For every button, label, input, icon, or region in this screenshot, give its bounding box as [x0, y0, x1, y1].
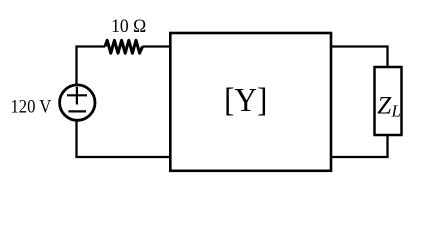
wire box to load top	[331, 45, 389, 67]
plus sign	[67, 87, 87, 105]
resistor R1 10 ohm zigzag	[105, 40, 143, 53]
svg-text:[Y]: [Y]	[224, 82, 267, 120]
svg-text:ZL: ZL	[377, 93, 401, 121]
load impedance ZL box	[375, 67, 402, 135]
svg-text:120 V: 120 V	[10, 95, 51, 116]
minus sign	[68, 110, 86, 112]
two-port network box	[170, 33, 331, 171]
wire top-left from source to resistor	[75, 45, 105, 84]
wire load bottom to bottom rail	[331, 135, 389, 158]
voltage source V1 circle	[60, 85, 95, 120]
svg-text:10 Ω: 10 Ω	[111, 16, 146, 37]
wire resistor to two-port box	[143, 45, 171, 47]
wire source bottom to bottom rail	[75, 120, 170, 158]
